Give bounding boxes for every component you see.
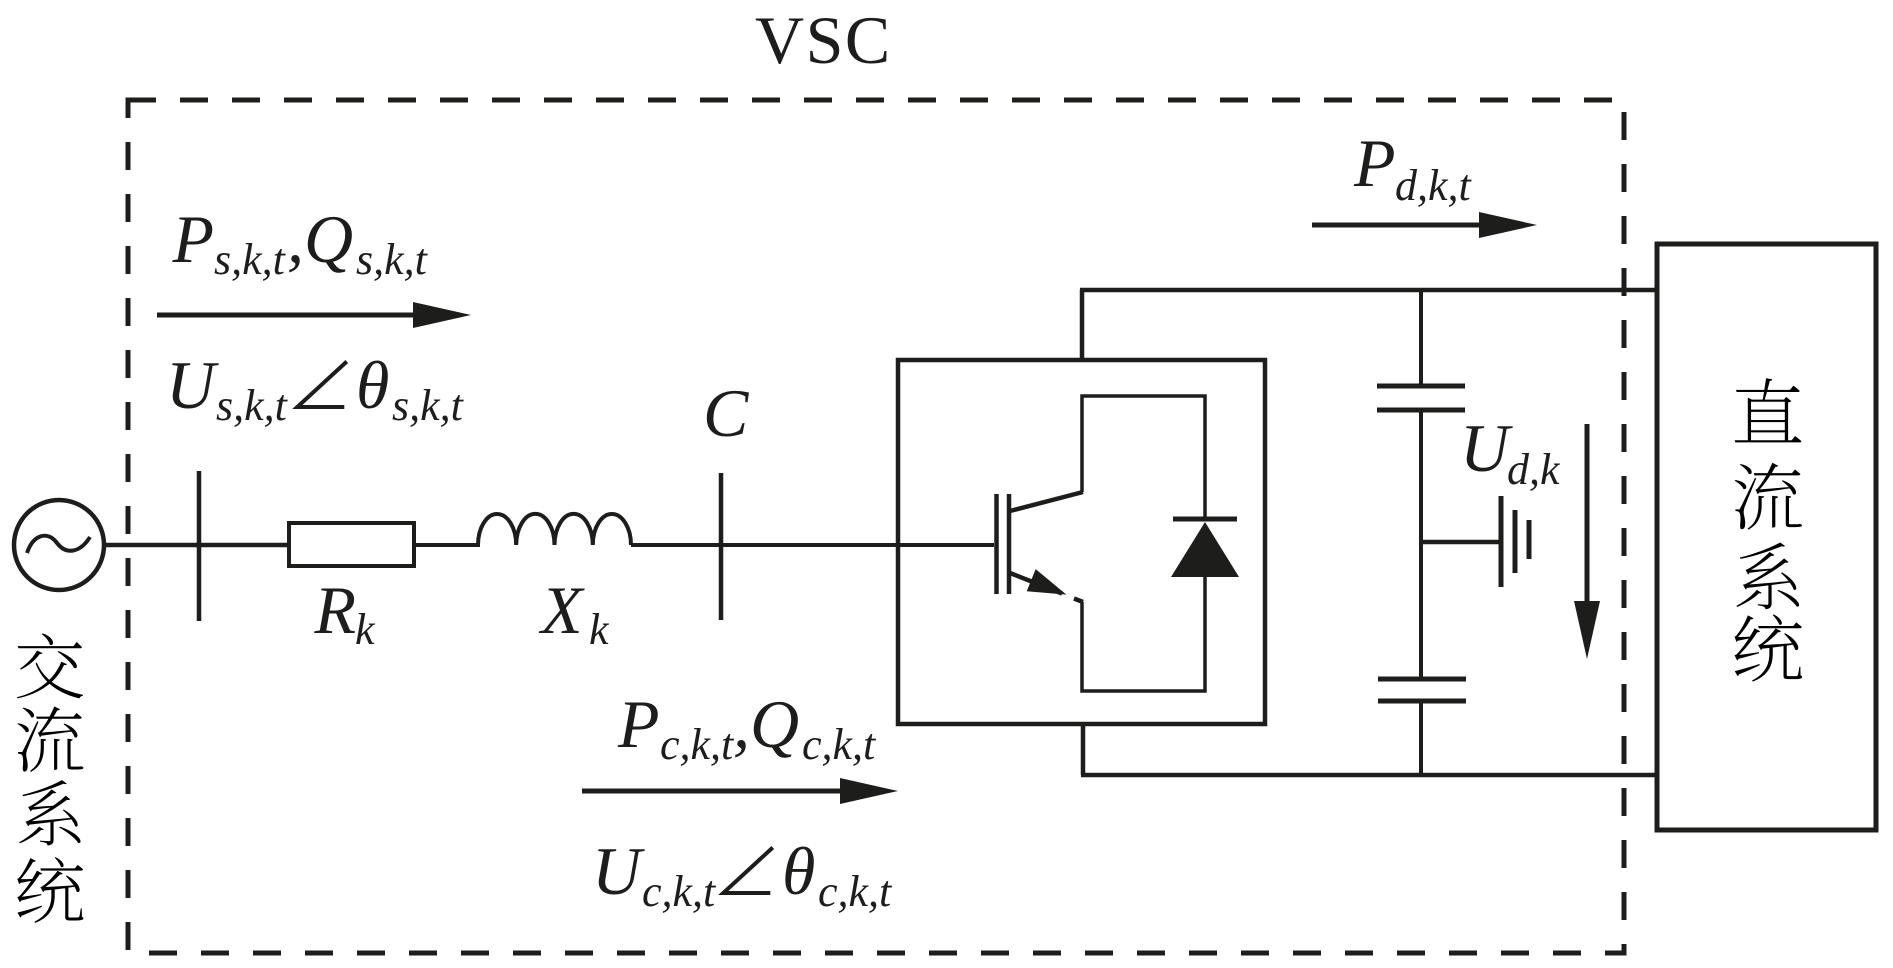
wire resistor to inductor — [414, 543, 480, 547]
svg-text:k: k — [589, 605, 610, 654]
wire source to resistor — [104, 543, 290, 548]
svg-text:c,k,t: c,k,t — [802, 720, 877, 769]
label U_s,k,t angle theta_s,k,t — [166, 347, 465, 430]
svg-text:,: , — [733, 686, 750, 762]
resistor R_k — [289, 523, 414, 566]
ground stem — [1421, 540, 1499, 545]
svg-text:C: C — [703, 375, 749, 451]
ground bar 1 — [1499, 496, 1504, 587]
label X_k — [538, 572, 610, 654]
wire inductor to converter — [631, 543, 994, 547]
svg-text:c,k,t: c,k,t — [660, 720, 735, 769]
svg-text:U: U — [592, 833, 645, 909]
converter top connector — [1080, 290, 1085, 360]
AC source sine symbol — [27, 536, 90, 553]
DC system box — [1657, 244, 1876, 830]
capacitor C2 plates — [1378, 677, 1466, 682]
svg-text:P: P — [617, 686, 660, 762]
svg-text:P: P — [1353, 125, 1396, 201]
svg-text:s,k,t: s,k,t — [356, 235, 429, 284]
svg-text:Q: Q — [750, 686, 799, 762]
svg-text:s,k,t: s,k,t — [216, 381, 289, 430]
converter module box — [898, 360, 1265, 724]
arrow P_d flow — [1312, 223, 1485, 228]
IGBT gate bar 2 — [1007, 494, 1012, 594]
DC top rail — [1080, 288, 1659, 293]
bus bar S — [197, 471, 202, 621]
label 直流系统 (DC system) — [1735, 378, 1802, 442]
svg-text:s,k,t: s,k,t — [214, 235, 287, 284]
angle symbol — [297, 362, 347, 408]
arrow P_c flow — [582, 789, 846, 794]
label 交流系统 (AC system) — [17, 633, 83, 698]
svg-text:,: , — [287, 201, 304, 277]
AC source G1 circle — [14, 500, 104, 590]
svg-text:R: R — [314, 572, 357, 648]
ground bar 3 — [1527, 520, 1532, 559]
svg-text:d,k: d,k — [1507, 445, 1561, 494]
IGBT gate bar 1 — [994, 494, 999, 594]
arrow P_s flow — [157, 313, 419, 318]
svg-text:U: U — [166, 347, 219, 423]
VSC dashed boundary box — [128, 100, 1624, 953]
capacitor branch lower wire — [1419, 701, 1423, 775]
svg-text:P: P — [172, 201, 215, 277]
DC bottom rail — [1081, 773, 1659, 778]
bus bar C — [719, 473, 724, 620]
diode triangle — [1171, 522, 1239, 577]
svg-text:d,k,t: d,k,t — [1395, 161, 1473, 210]
inductor X_k coil — [478, 514, 631, 545]
svg-text:s,k,t: s,k,t — [392, 381, 465, 430]
svg-text:U: U — [1460, 410, 1513, 486]
capacitor C1 plates — [1377, 384, 1465, 389]
IGBT internal loop — [1082, 396, 1205, 691]
ground bar 2 — [1513, 510, 1518, 573]
label U_c,k,t angle theta_c,k,t — [592, 833, 893, 916]
arrow U_d direction — [1585, 424, 1590, 604]
svg-text:θ: θ — [356, 347, 389, 423]
capacitor branch upper wire — [1419, 290, 1423, 386]
label U_d,k — [1460, 410, 1561, 494]
label P_d,k,t — [1353, 125, 1473, 210]
converter bottom connector — [1081, 724, 1086, 775]
svg-text:c,k,t: c,k,t — [818, 867, 893, 916]
IGBT collector diagonal — [1010, 492, 1083, 511]
capacitor middle wire — [1419, 410, 1423, 679]
label P_s,k,t Q_s,k,t — [172, 201, 429, 284]
IGBT emitter diagonal — [1010, 573, 1062, 594]
svg-text:k: k — [355, 605, 376, 654]
label R_k — [314, 572, 377, 654]
label P_c,k,t Q_c,k,t — [617, 686, 877, 769]
svg-text:Q: Q — [304, 201, 353, 277]
IGBT emitter arrowhead — [1027, 569, 1067, 595]
svg-text:X: X — [538, 572, 585, 648]
svg-text:θ: θ — [782, 833, 815, 909]
angle symbol 2 — [723, 848, 773, 894]
svg-text:c,k,t: c,k,t — [642, 867, 717, 916]
diode cathode bar — [1173, 517, 1237, 522]
svg-text:VSC: VSC — [755, 2, 892, 78]
